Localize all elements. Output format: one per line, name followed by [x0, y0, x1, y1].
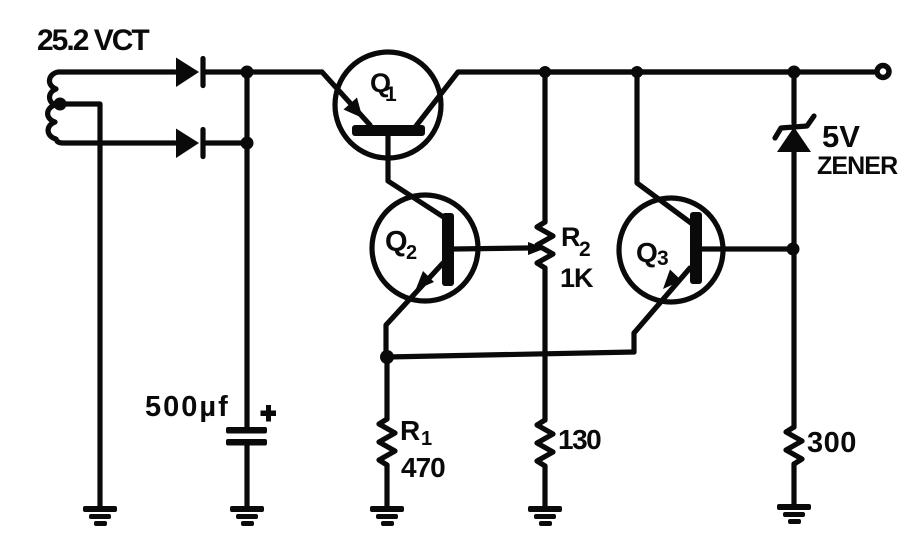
node center tap — [54, 98, 67, 111]
arrow R2 wiper — [528, 242, 545, 255]
svg-text:ZENER: ZENER — [817, 152, 898, 180]
svg-text:300: 300 — [807, 427, 857, 459]
svg-text:3: 3 — [657, 247, 669, 270]
svg-text:1: 1 — [421, 428, 432, 450]
junction dot rail/zener — [788, 66, 801, 79]
junction dot rail/R2 — [539, 66, 551, 78]
svg-text:1K: 1K — [560, 263, 594, 293]
wire rail to R2 top — [542, 72, 547, 222]
junction dot D2 output — [241, 137, 254, 150]
label Q2 — [385, 226, 417, 264]
svg-text:R: R — [400, 415, 420, 446]
resistor 300 — [786, 427, 802, 464]
svg-text:1: 1 — [385, 83, 397, 106]
wire rectifier output down to capacitor — [244, 72, 249, 427]
wire D1 cathode to Q1 emitter bend — [206, 69, 322, 74]
wire output rail — [545, 69, 794, 74]
wire emitter bus Q2/Q3 to R1 — [387, 352, 634, 357]
wire Q3 collector lead — [637, 72, 691, 223]
potentiometer R2 1K — [537, 222, 553, 268]
svg-text:R: R — [561, 222, 581, 252]
wire Q2 emitter lead — [386, 263, 443, 357]
wire Q3 base to zener — [701, 246, 794, 251]
wire Q1 emitter lead — [322, 72, 370, 125]
wire center tap to ground — [60, 104, 100, 509]
wire resistor 130 to ground — [542, 466, 547, 509]
junction dot rail/Q3 collector — [631, 66, 643, 78]
junction dot zener/Q3 base — [787, 243, 800, 256]
diode D2 — [176, 129, 203, 159]
resistor R1 470 — [379, 419, 395, 465]
junction dot rail/diodes — [241, 66, 254, 79]
diode D1 — [176, 58, 203, 88]
label R2 — [561, 222, 591, 261]
capacitor C1 plus sign — [261, 405, 277, 422]
wire R1 to ground — [384, 465, 389, 509]
wire zener anode to resistor 300 — [791, 151, 796, 427]
output terminal — [877, 66, 889, 78]
transistor Q3 — [619, 198, 723, 302]
ground (R1) — [370, 506, 404, 526]
wire R1 top lead — [384, 357, 389, 419]
capacitor C1 — [226, 427, 267, 446]
junction dot R1 top — [380, 350, 394, 364]
label Q1 — [370, 68, 397, 106]
arrow Q3 emitter — [663, 270, 682, 290]
wire Q1 base to Q2 collector — [388, 136, 445, 218]
svg-text:25.2 VCT: 25.2 VCT — [37, 24, 149, 57]
ground (center tap) — [83, 506, 117, 526]
transistor Q1 — [335, 52, 441, 158]
zener diode D3 5V — [775, 116, 814, 152]
arrow Q2 emitter — [416, 271, 435, 290]
ground (resistor 300) — [777, 504, 811, 524]
transformer T1 secondary winding — [48, 72, 175, 143]
svg-text:470: 470 — [401, 452, 445, 483]
ground (capacitor) — [230, 506, 264, 526]
wire D2 cathode to junction — [206, 140, 247, 145]
svg-text:130: 130 — [558, 424, 601, 455]
label Q3 — [636, 237, 669, 270]
wire Q1 collector lead — [416, 72, 874, 126]
svg-text:Q: Q — [636, 237, 658, 268]
wire R2 bottom to resistor 130 — [542, 268, 547, 420]
label R1 — [400, 415, 432, 450]
wire capacitor to ground — [244, 445, 249, 509]
wire Q3 emitter lead — [634, 268, 690, 352]
svg-text:5V: 5V — [822, 119, 860, 154]
svg-text:Q: Q — [385, 226, 408, 258]
svg-text:2: 2 — [579, 238, 591, 261]
wire resistor 300 to ground — [791, 464, 796, 507]
wire rail to zener cathode — [791, 72, 796, 123]
transistor Q2 — [372, 195, 478, 301]
svg-text:2: 2 — [406, 242, 417, 264]
arrow Q1 emitter — [344, 98, 363, 119]
svg-text:500µf: 500µf — [145, 391, 230, 423]
wire Q2 base to R2 wiper — [454, 248, 528, 249]
resistor 130 — [537, 420, 553, 466]
ground (resistor 130) — [528, 506, 562, 526]
